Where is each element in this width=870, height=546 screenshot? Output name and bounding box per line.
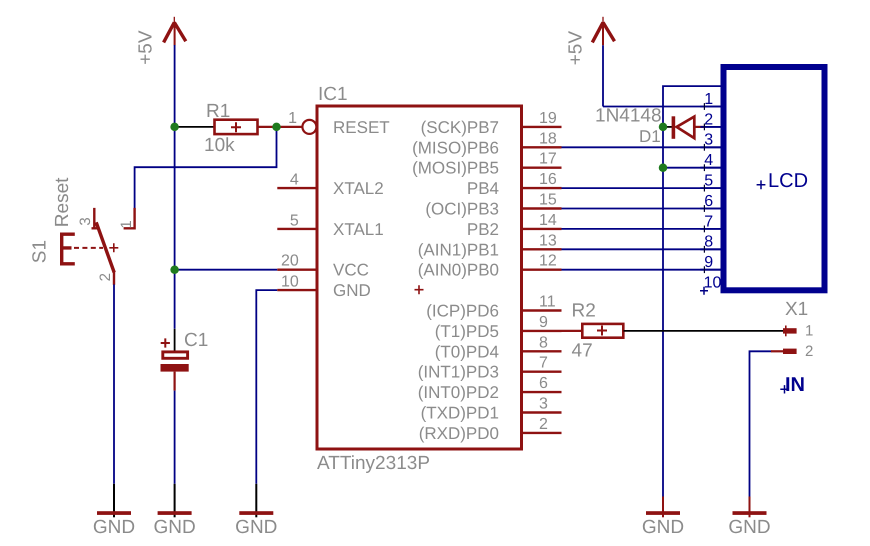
svg-text:(SCK)PB7: (SCK)PB7 [421, 118, 499, 137]
svg-text:10: 10 [281, 274, 299, 291]
LCD pin 6 stub [700, 208, 720, 210]
svg-text:5: 5 [290, 213, 299, 230]
svg-text:R1: R1 [206, 101, 230, 122]
svg-text:GND: GND [235, 517, 277, 538]
svg-text:(OCI)PB3: (OCI)PB3 [425, 200, 499, 219]
svg-text:PB2: PB2 [467, 220, 499, 239]
IC pin 11 stub [522, 309, 562, 311]
svg-text:(ICP)PD6: (ICP)PD6 [426, 302, 499, 321]
wire X1 pin 2 to GND [750, 351, 772, 496]
svg-text:7: 7 [704, 213, 713, 230]
LCD pin 5 stub [700, 187, 720, 189]
svg-text:1: 1 [288, 110, 297, 127]
IC pin 13 stub [522, 248, 562, 250]
wire top branch to LCD [663, 86, 721, 106]
IC pin 8 stub [522, 350, 562, 352]
svg-text:XTAL2: XTAL2 [333, 179, 384, 198]
svg-text:6: 6 [539, 375, 548, 392]
svg-text:RESET: RESET [333, 118, 390, 137]
svg-text:19: 19 [539, 110, 557, 127]
svg-text:C1: C1 [184, 330, 208, 351]
LCD pin 2 endpoint tick [703, 124, 705, 131]
wire S1 pin2 to GND [113, 285, 115, 484]
wire LCD pin 4 net [663, 167, 721, 169]
wire R1 right lead / IC pin 1 line (red) [258, 126, 303, 128]
wire IC PB to LCD pin 3 [562, 146, 721, 148]
svg-text:GND: GND [333, 281, 371, 300]
capacitor C1 [161, 338, 189, 390]
svg-text:IC1: IC1 [318, 84, 348, 105]
LCD pin10 origin cross [700, 287, 708, 295]
svg-text:(MOSI)PB5: (MOSI)PB5 [412, 159, 499, 178]
LCD pin 4 endpoint tick [703, 164, 705, 171]
node junction RESET net [272, 123, 281, 131]
svg-text:(INT0)PD2: (INT0)PD2 [418, 383, 499, 402]
IC pin 4 stub [277, 187, 317, 189]
svg-text:7: 7 [539, 355, 548, 372]
svg-text:GND: GND [642, 517, 684, 538]
IC pin 7 stub [522, 371, 562, 373]
ground GND5 (under X1) [749, 497, 751, 518]
svg-text:D1: D1 [639, 127, 661, 146]
wire +5V to junctions and C1 (main vertical net) [174, 45, 176, 329]
ground GND2 (under C1) [174, 484, 176, 518]
IC origin cross [415, 285, 424, 294]
LCD pin 4 stub [700, 167, 720, 169]
wire IC PB to LCD pin 9 [562, 269, 721, 271]
ground GND4 (under +5V bus) [662, 497, 664, 518]
svg-text:GND: GND [728, 517, 770, 538]
capacitor C1 top lead (black) [174, 329, 176, 356]
resistor R1 [215, 120, 258, 134]
wire diode to LCD pin 2 [705, 126, 721, 128]
LCD pin 1 stub [700, 106, 720, 108]
IC pin 20 stub (VCC) [277, 269, 317, 271]
LCD pin 6 endpoint tick [703, 205, 705, 212]
IC pin 18 stub [522, 146, 562, 148]
wire +5V right down to LCD pin1 row [602, 45, 604, 106]
svg-text:8: 8 [539, 334, 548, 351]
ground GND3 (under IC) [255, 484, 257, 518]
LCD pin 2 stub [700, 126, 720, 128]
node junction LCD pin4 [659, 163, 668, 172]
IC pin 17 stub [522, 166, 562, 168]
svg-text:(AIN1)PB1: (AIN1)PB1 [418, 240, 499, 259]
svg-text:2: 2 [805, 343, 813, 360]
svg-text:VCC: VCC [333, 261, 369, 280]
LCD pin 9 endpoint tick [703, 266, 705, 273]
wire R1 left lead (black) [175, 126, 214, 128]
svg-text:IN: IN [785, 374, 805, 396]
LCD pin 8 endpoint tick [703, 246, 705, 253]
+5V power symbol (left) [136, 17, 186, 65]
IC pin 6 stub [522, 391, 562, 393]
svg-text:XTAL1: XTAL1 [333, 220, 384, 239]
wire C1 to GND [174, 391, 176, 484]
svg-text:2: 2 [97, 273, 114, 281]
diode D1 cathode lead (black) [663, 126, 672, 128]
svg-text:18: 18 [539, 130, 557, 147]
IC pin 9 stub [522, 330, 562, 332]
svg-text:Reset: Reset [52, 177, 73, 227]
svg-text:1: 1 [118, 220, 135, 228]
svg-text:12: 12 [539, 253, 557, 270]
connector X1 pin 2 lead [771, 350, 784, 352]
LCD pin 3 stub [700, 146, 720, 148]
wire IC PB to LCD pin 7 [562, 228, 721, 230]
svg-text:(AIN0)PB0: (AIN0)PB0 [418, 261, 499, 280]
connector X1 pin 1 [783, 326, 797, 337]
svg-text:9: 9 [704, 254, 713, 271]
IC pin 19 stub [522, 126, 562, 128]
svg-text:4: 4 [704, 152, 713, 169]
IC pin 10 stub (GND) [277, 289, 317, 291]
svg-text:(RXD)PD0: (RXD)PD0 [419, 424, 499, 443]
svg-text:1N4148: 1N4148 [595, 106, 662, 127]
svg-text:1: 1 [704, 91, 713, 108]
svg-text:11: 11 [539, 294, 556, 311]
IC pin 16 stub [522, 187, 562, 189]
LCD pin 1 endpoint tick [703, 103, 705, 110]
svg-text:14: 14 [539, 212, 557, 229]
svg-text:GND: GND [93, 517, 135, 538]
connector X1 pin 2 [783, 349, 797, 354]
node junction at R1 left [170, 123, 179, 131]
wire R2 to X1 pin 1 (black) [624, 330, 785, 332]
svg-text:1: 1 [805, 323, 813, 340]
IC pin 12 stub [522, 269, 562, 271]
svg-text:ATTiny2313P: ATTiny2313P [317, 453, 430, 474]
wire VCC net from main vertical to IC pin 20 [175, 269, 278, 271]
svg-text:+5V: +5V [565, 31, 586, 66]
IC pin 14 stub [522, 228, 562, 230]
LCD pin 5 endpoint tick [703, 185, 705, 192]
node junction at VCC row [170, 265, 179, 274]
LCD pin 9 stub [700, 269, 720, 271]
svg-text:(T1)PD5: (T1)PD5 [435, 322, 499, 341]
svg-text:8: 8 [704, 234, 713, 251]
LCD pin 7 endpoint tick [703, 226, 705, 233]
svg-text:3: 3 [539, 396, 548, 413]
svg-text:S1: S1 [29, 240, 50, 263]
switch S1 [62, 208, 136, 285]
wire IC PB to LCD pin 5 [562, 187, 721, 189]
svg-text:3: 3 [704, 132, 713, 149]
svg-text:4: 4 [290, 172, 299, 189]
wire IC PB to LCD pin 6 [562, 208, 721, 210]
svg-text:PB4: PB4 [467, 179, 499, 198]
LCD pin 7 stub [700, 228, 720, 230]
svg-text:LCD: LCD [768, 170, 808, 192]
svg-text:47: 47 [572, 341, 593, 362]
resistor R2 [582, 324, 623, 338]
svg-text:16: 16 [539, 171, 557, 188]
svg-text:(T0)PD4: (T0)PD4 [435, 342, 499, 361]
ground GND1 (under S1) [113, 484, 115, 518]
node junction diode anode [659, 123, 668, 131]
svg-text:(MISO)PB6: (MISO)PB6 [412, 138, 499, 157]
svg-text:(TXD)PD1: (TXD)PD1 [421, 404, 499, 423]
LCD pin 3 endpoint tick [703, 144, 705, 151]
svg-text:9: 9 [539, 314, 548, 331]
wire GND net from IC pin 10 down to GND3 [256, 290, 277, 484]
LCD origin cross [757, 180, 766, 189]
IN origin cross [780, 385, 788, 393]
IC pin 5 stub [277, 228, 317, 230]
LCD connector body [724, 67, 825, 290]
svg-text:X1: X1 [785, 299, 808, 320]
svg-text:13: 13 [539, 232, 557, 249]
inversion bubble on IC1 RESET pin [302, 120, 316, 134]
svg-text:GND: GND [153, 517, 195, 538]
svg-text:10k: 10k [204, 135, 235, 156]
wire +5V vertical bus to GND4 [662, 107, 664, 497]
svg-text:20: 20 [281, 253, 299, 270]
wire RESET net down-left to switch S1 [135, 127, 277, 208]
svg-text:3: 3 [77, 217, 94, 225]
svg-text:10: 10 [704, 275, 722, 292]
IC U1 body ATTiny2313P [317, 106, 522, 449]
wire IC pin 9 to R2 (red) [562, 330, 583, 332]
diode D1 [672, 116, 705, 139]
wire IC PB to LCD pin 8 [562, 248, 721, 250]
+5V power symbol (right) [565, 17, 614, 66]
svg-text:17: 17 [539, 151, 557, 168]
svg-text:R2: R2 [572, 301, 596, 322]
wire LCD pin 1 net [603, 106, 721, 108]
svg-text:5: 5 [704, 173, 713, 190]
svg-text:15: 15 [539, 192, 557, 209]
IC pin 3 stub [522, 411, 562, 413]
IC pin 2 stub [522, 432, 562, 434]
svg-text:2: 2 [704, 111, 713, 128]
svg-text:2: 2 [539, 416, 548, 433]
LCD pin 8 stub [700, 248, 720, 250]
svg-text:+5V: +5V [136, 30, 157, 65]
svg-text:6: 6 [704, 193, 713, 210]
svg-text:(INT1)PD3: (INT1)PD3 [418, 363, 499, 382]
IC pin 15 stub [522, 207, 562, 209]
